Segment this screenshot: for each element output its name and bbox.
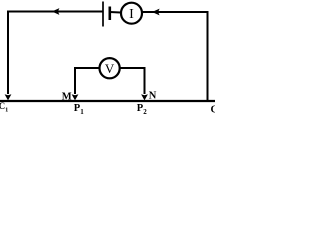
wire voltmeter right leg xyxy=(120,68,144,94)
battery cell short plate xyxy=(109,7,112,21)
arrow current direction top-left xyxy=(52,8,60,15)
svg-text:M: M xyxy=(62,91,72,102)
wire voltmeter left leg xyxy=(75,68,99,94)
svg-text:V: V xyxy=(105,61,115,76)
svg-text:P2: P2 xyxy=(137,103,147,116)
arrow at node M xyxy=(72,94,79,100)
battery cell long plate xyxy=(102,2,104,27)
ammeter circle U1 xyxy=(121,3,142,24)
svg-text:C1: C1 xyxy=(0,101,8,114)
svg-text:N: N xyxy=(149,91,157,102)
arrow at node N xyxy=(141,94,148,100)
wire top-left horizontal xyxy=(7,11,103,13)
wire left vertical xyxy=(7,11,9,95)
arrow current direction top-right xyxy=(152,9,160,16)
svg-text:I: I xyxy=(129,7,134,22)
wire right vertical xyxy=(207,11,209,101)
voltmeter circle U2 xyxy=(100,58,120,78)
arrow into node C1 xyxy=(5,94,12,100)
potentiometer wire bottom xyxy=(0,100,215,102)
wire battery to ammeter xyxy=(110,11,121,14)
svg-text:P1: P1 xyxy=(74,103,84,116)
svg-text:C2: C2 xyxy=(211,105,216,118)
wire ammeter to top-right corner xyxy=(143,11,208,13)
